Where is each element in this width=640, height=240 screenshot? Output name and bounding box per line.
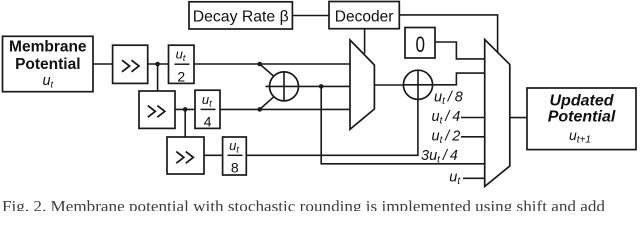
svg-text:Potential: Potential bbox=[548, 109, 616, 126]
wire adder A2 output to mux M2 bbox=[433, 73, 485, 85]
box ut/2 bbox=[169, 45, 195, 83]
adder A2 bbox=[403, 70, 432, 99]
wire zero box to mux M2 bbox=[435, 42, 485, 59]
svg-text:Membrane: Membrane bbox=[9, 38, 87, 55]
label shifter1 >> bbox=[122, 60, 139, 72]
svg-text:ut: ut bbox=[449, 169, 461, 187]
wire ut/2 labelled stub to mux M2 bbox=[461, 136, 485, 138]
wire 3ut/4 branch down to mux M2 bbox=[321, 86, 485, 163]
svg-text:Fig. 2. Membrane potential w: Fig. 2. Membrane potential with stochast… bbox=[2, 199, 605, 212]
wire junction drop to shifter3 bbox=[184, 109, 186, 137]
junction ut/4 to adder A1 bbox=[257, 107, 262, 112]
box Membrane Potential bbox=[3, 36, 94, 91]
junction ut/2 to adder A1 bbox=[257, 62, 262, 67]
wire shifter3 to ut/8 box bbox=[204, 154, 223, 156]
wire decoder to mux M2 select bbox=[399, 15, 497, 53]
svg-text:Potential: Potential bbox=[15, 56, 80, 73]
box Decay Rate bbox=[189, 2, 292, 29]
net label ut/8 bbox=[421, 90, 463, 187]
svg-text:8: 8 bbox=[231, 159, 239, 175]
svg-text:4: 4 bbox=[204, 114, 212, 130]
svg-text:ut / 2: ut / 2 bbox=[432, 128, 461, 146]
wire junction drop to shifter2 bbox=[157, 64, 159, 91]
wire ut/8 to adder A2 bottom bbox=[246, 99, 418, 155]
box Updated Potential bbox=[527, 88, 636, 150]
label shifter3 >> bbox=[176, 152, 193, 164]
svg-text:3ut / 4: 3ut / 4 bbox=[421, 148, 458, 166]
shifter box 3 bbox=[167, 137, 204, 174]
box zero constant bbox=[405, 28, 435, 59]
junction after shifter1 bbox=[155, 62, 160, 67]
adder A1 bbox=[270, 72, 299, 101]
wire membrane to shifter1 bbox=[93, 63, 113, 65]
box ut/4 bbox=[195, 90, 220, 128]
label shifter2 >> bbox=[148, 106, 165, 118]
wire diagonal ut/4 into adder A1 bbox=[260, 96, 275, 109]
wire adder A1 output to mux M1 bbox=[298, 85, 350, 87]
wire shifter2 to ut/4 box bbox=[175, 108, 195, 110]
adder A1 plus cross bbox=[266, 85, 299, 87]
wire mux M2 output to updated potential box bbox=[510, 117, 527, 119]
wire mux M1 output to adder A2 bbox=[374, 84, 403, 86]
wire decoder to mux M1 select bbox=[364, 29, 366, 54]
box Decoder bbox=[329, 2, 399, 29]
junction adder A1 output bbox=[319, 84, 324, 89]
adder A2 plus cross bbox=[403, 84, 432, 86]
svg-text:Decay Rate β: Decay Rate β bbox=[193, 8, 289, 25]
mux M2 bbox=[485, 40, 510, 187]
wire decay rate to decoder bbox=[293, 15, 329, 17]
mux M1 bbox=[350, 40, 374, 129]
wire ut/2 to mux M1 bbox=[194, 63, 350, 65]
junction after shifter2 bbox=[183, 107, 188, 112]
svg-text:2: 2 bbox=[177, 68, 185, 84]
box ut/8 bbox=[223, 137, 247, 175]
wire ut/4 to mux M1 bbox=[220, 108, 350, 110]
svg-text:Updated: Updated bbox=[550, 92, 615, 109]
svg-text:ut / 8: ut / 8 bbox=[434, 90, 463, 108]
wire diagonal ut/2 into adder A1 bbox=[260, 64, 275, 77]
wire shifter1 to ut/2 box bbox=[148, 63, 169, 65]
svg-text:0: 0 bbox=[415, 32, 425, 57]
label fraction ut/4 bbox=[202, 92, 212, 130]
label fraction ut/2 bbox=[176, 47, 186, 85]
svg-text:ut / 4: ut / 4 bbox=[432, 109, 461, 127]
shifter box 2 bbox=[139, 91, 175, 128]
svg-text:Decoder: Decoder bbox=[335, 9, 394, 26]
wire ut/4 labelled stub to mux M2 bbox=[461, 117, 485, 119]
wire ut labelled stub to mux M2 bbox=[463, 177, 485, 179]
label fraction ut/8 bbox=[229, 138, 239, 176]
shifter box 1 bbox=[113, 45, 148, 83]
